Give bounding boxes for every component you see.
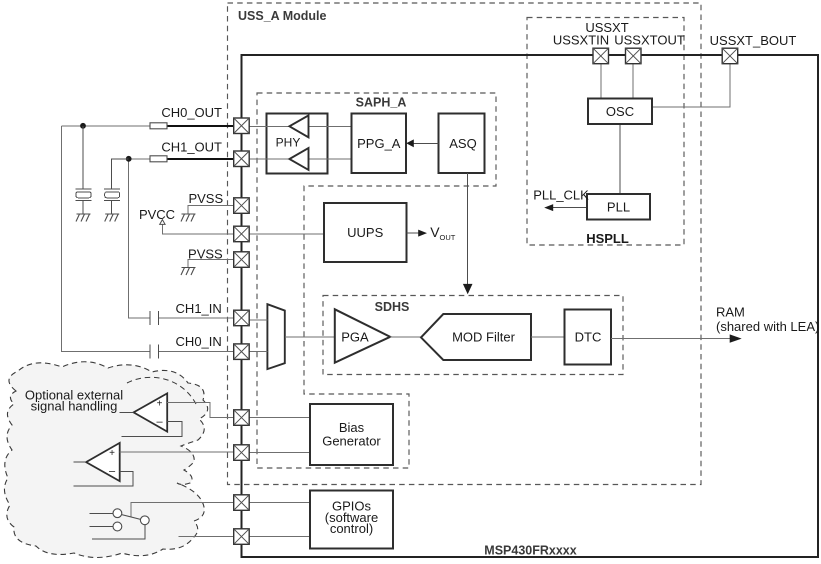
wire PVCC to pin4 [162, 224, 233, 234]
wire OSC to PLL [619, 124, 621, 194]
block PLL [587, 194, 650, 220]
arrow ASQ to PPG_A left [406, 139, 414, 147]
block Bias Generator [310, 404, 393, 465]
wire GPIO pin1 to switch [131, 503, 234, 517]
block OSC [588, 99, 652, 125]
svg-text:+: + [157, 399, 163, 410]
pin USSXT_BOUT [722, 48, 738, 64]
transducer XT1 [104, 159, 129, 214]
wire PVSS pin3 to ground [188, 206, 234, 214]
wire ASQ to PPG_A [413, 142, 439, 144]
op-amp A2 [86, 443, 120, 481]
MSP430FRxxxx chip outline [242, 55, 819, 557]
svg-text:CH1_OUT: CH1_OUT [161, 139, 222, 154]
wire op-amp A1 + input to pin [167, 402, 233, 417]
svg-text:signal handling: signal handling [31, 399, 118, 414]
wire USSXTIN pin to OSC [600, 64, 602, 99]
op-amp A1 [134, 393, 168, 431]
svg-text:MOD Filter: MOD Filter [452, 330, 516, 345]
svg-text:USS_A Module: USS_A Module [238, 9, 326, 23]
wire USSXT_BOUT pin to OSC [652, 64, 730, 108]
pin GPIO1 [234, 495, 250, 511]
svg-text:PLL: PLL [607, 199, 630, 214]
wire DTC to RAM [611, 338, 731, 340]
cloud inner arc [127, 377, 196, 404]
wire GPIO pin2 to GPIOs block [250, 536, 311, 538]
block ASQ [438, 114, 484, 174]
svg-text:PVSS: PVSS [188, 191, 223, 206]
svg-text:–: – [156, 416, 163, 428]
svg-text:PGA: PGA [341, 330, 369, 345]
wire CH1_OUT horizontal [112, 158, 150, 160]
wire UUPS to VOUT [407, 232, 420, 234]
capacitor C series CH1_IN [150, 311, 159, 325]
svg-text:CH1_IN: CH1_IN [176, 301, 222, 316]
pin CH0_OUT [234, 118, 250, 134]
svg-text:PVSS: PVSS [188, 246, 223, 261]
wire op-amp A1 output [120, 411, 134, 413]
svg-text:DTC: DTC [575, 330, 602, 345]
capacitor C series CH0_IN [150, 344, 159, 358]
wire PLL_CLK out of PLL [552, 207, 587, 209]
pin CH0_IN [234, 344, 250, 360]
block GPIOs [310, 491, 393, 549]
PGA triangle [335, 309, 390, 362]
svg-text:(shared with LEA): (shared with LEA) [716, 319, 819, 334]
svg-text:CH0_OUT: CH0_OUT [161, 105, 222, 120]
pin BIAS2 [234, 445, 250, 461]
HSPLL dashed boundary [527, 18, 684, 246]
MOD Filter pentagon [421, 314, 531, 360]
block PPG_A [352, 114, 406, 174]
pin GPIO2 [234, 529, 250, 545]
pin CH1_OUT [234, 151, 250, 167]
svg-text:USSXTOUT: USSXTOUT [614, 32, 685, 47]
wire ASQ down to SDHS [467, 173, 469, 285]
wire PVCC pin to UUPS [250, 233, 325, 235]
svg-text:CH0_IN: CH0_IN [176, 334, 222, 349]
wire CH0_OUT horizontal [61, 125, 150, 127]
wire CH1 vertical down to CH1_IN [129, 159, 150, 318]
block UUPS [324, 203, 407, 262]
wire GPIO pin2 stub [179, 536, 234, 538]
svg-text:USSXTIN: USSXTIN [553, 32, 609, 47]
arrow VOUT right [418, 230, 427, 237]
svg-text:ASQ: ASQ [449, 136, 476, 151]
svg-text:Generator: Generator [322, 433, 381, 448]
ferrite bead R on CH0_OUT [150, 123, 167, 129]
node junction dot CH1 [126, 156, 132, 162]
block PHY [266, 113, 327, 173]
wire CH0_OUT pin into PHY [250, 125, 290, 127]
svg-text:PHY: PHY [276, 136, 301, 150]
wire mux to PGA [285, 336, 335, 338]
wire MOD Filter to DTC [531, 336, 565, 338]
svg-text:MSP430FRxxxx: MSP430FRxxxx [484, 544, 576, 558]
pin USSXTIN [593, 48, 609, 64]
node junction dot CH0 [80, 123, 86, 129]
wire CH1_OUT pin into PHY [250, 158, 290, 160]
wire op-amp A2 - feedback stub [73, 471, 133, 486]
pin PVSS2 [234, 252, 250, 267]
pin PVSS1 [234, 198, 250, 214]
ground under XT1 [105, 214, 120, 222]
wire CH0_IN pin to mux [250, 350, 268, 352]
svg-text:PLL_CLK: PLL_CLK [533, 188, 589, 203]
svg-text:OUT: OUT [440, 233, 456, 242]
wire op-amp A1 - feedback stub [122, 421, 182, 436]
arrow PLL_CLK left [544, 204, 553, 211]
svg-text:PVCC: PVCC [139, 207, 175, 222]
wire USSXTOUT pin to OSC [632, 64, 634, 99]
wire PVSS pin5 to ground [188, 260, 234, 268]
ground PVSS top [181, 214, 196, 222]
pin CH1_IN [234, 310, 250, 326]
PVCC open arrow up [160, 220, 165, 225]
mux trapezoid [267, 304, 284, 369]
wire CH1_IN pin to mux [250, 319, 268, 321]
svg-text:USSXT_BOUT: USSXT_BOUT [710, 33, 797, 48]
wire CH0 left vertical down to CH0_IN [61, 126, 150, 351]
arrow ASQ to SDHS down [463, 284, 473, 294]
ground PVSS bottom [181, 268, 196, 276]
cloud Optional external signal handling [4, 362, 207, 558]
wire PHY buf2 to PPG_A [309, 158, 352, 160]
svg-text:–: – [109, 466, 116, 478]
svg-text:PPG_A: PPG_A [357, 136, 401, 151]
SDHS dashed boundary [323, 296, 623, 375]
svg-text:control): control) [330, 521, 373, 536]
pin BIAS1 [234, 410, 250, 426]
svg-text:HSPLL: HSPLL [586, 231, 629, 246]
svg-text:RAM: RAM [716, 305, 745, 320]
ground under XT0 [76, 214, 91, 222]
wire bias pin1 to Bias Generator [250, 417, 311, 419]
ferrite bead R on CH1_OUT [150, 156, 167, 162]
wire PGA to MOD Filter [390, 336, 421, 338]
svg-text:SAPH_A: SAPH_A [356, 96, 407, 110]
USS_A Module dashed boundary [228, 3, 702, 485]
wire op-amp A2 output [73, 461, 86, 463]
wire CH0_IN cap to pin [159, 350, 234, 352]
svg-text:OSC: OSC [606, 104, 634, 119]
buffer triangle in PHY bottom [289, 148, 308, 170]
block DTC [565, 310, 612, 365]
switch SW contacts [90, 509, 150, 539]
svg-text:SDHS: SDHS [375, 300, 410, 314]
svg-text:UUPS: UUPS [347, 225, 383, 240]
arrow RAM right [730, 334, 742, 342]
wire op-amp A2 + input to pin [120, 451, 234, 453]
pin USSXTOUT [626, 48, 642, 64]
svg-text:+: + [109, 448, 115, 459]
transducer XT0 [76, 126, 92, 214]
buffer triangle in PHY top [289, 115, 308, 137]
wire bias pin2 to Bias Generator [250, 452, 311, 454]
wire PHY buf1 to PPG_A [309, 125, 352, 127]
wire CH1_IN cap to pin [159, 317, 234, 319]
wire GPIO pin1 to GPIOs block [250, 502, 311, 504]
SAPH_A dashed boundary [257, 93, 496, 468]
pin PVCC [234, 226, 250, 242]
